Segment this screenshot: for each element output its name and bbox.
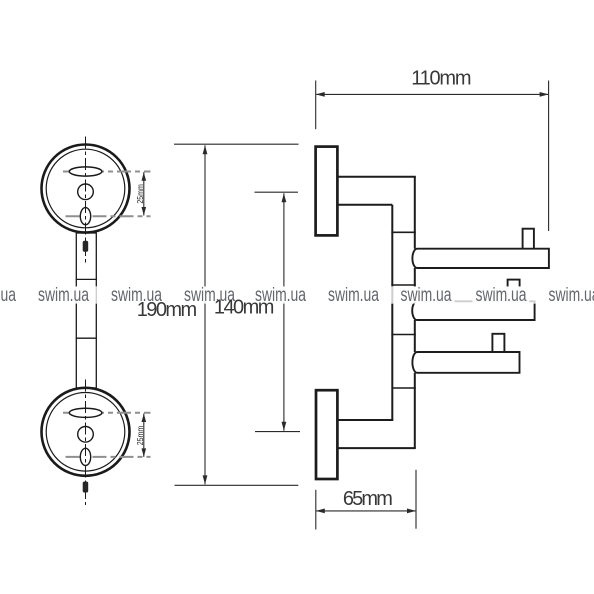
hook arm 1 peg [523,229,534,249]
vertical centerline [85,380,87,506]
140mm dimension [255,192,301,431]
outer ring [42,388,130,476]
25mm dimension (bottom rosette) [135,414,146,457]
svg-text:25mm: 25mm [135,426,145,446]
horizontal centerline through slot [63,412,151,414]
svg-text:swim.ua: swim.ua [401,285,452,306]
dimension line [204,145,206,484]
watermark texts [0,285,594,306]
vertical centerline [85,137,87,263]
hook arm 3 [412,352,519,373]
horizontal centerline through slot [63,171,151,173]
watermark band [0,286,594,303]
lower support arm outline [338,420,416,448]
svg-text:110mm: 110mm [411,67,471,89]
post swivel joint lines [391,232,415,388]
post right edge (segments between arms) [414,177,416,249]
screw hole [78,427,94,443]
190mm dimension [174,144,299,485]
outer ring [42,145,130,233]
svg-text:swim.ua: swim.ua [549,285,594,306]
lower oval hole [80,448,90,465]
set pin bottom [83,482,89,493]
svg-text:190mm: 190mm [137,299,198,321]
hook arm 2 peg [508,280,520,302]
keyhole slot [69,408,102,417]
svg-text:swim.ua: swim.ua [0,285,16,306]
keyhole slot [69,167,102,176]
110mm dimension [316,67,549,231]
bar joint line upper [76,278,97,280]
bottom wall plate (side view) [316,390,337,479]
lower oval hole [80,208,90,225]
horizontal centerline through oval [66,215,151,217]
top wall plate (side view) [316,147,338,236]
svg-text:140mm: 140mm [214,297,275,319]
bottom extension line [255,431,300,433]
svg-text:swim.ua: swim.ua [328,285,379,306]
post left edge [391,205,393,420]
dimension line [283,193,285,431]
top extension line [255,191,299,193]
bottom wall mount rosette (front view) [42,380,151,506]
bottom extension line [175,484,299,486]
svg-text:65mm: 65mm [343,488,393,510]
svg-text:swim.ua: swim.ua [38,285,89,306]
bar joint line lower [76,337,97,339]
set pin top [83,241,89,252]
hook arm 3 peg [492,334,504,353]
hook arm 1 [412,249,549,268]
upper support arm outline [338,177,416,448]
inner ring [46,149,125,228]
screw hole [78,184,94,200]
svg-text:25mm: 25mm [135,184,145,204]
65mm dimension [316,470,416,530]
25mm dimension (top rosette) [135,172,146,215]
svg-text:swim.ua: swim.ua [476,285,527,306]
top wall mount rosette (front view) [42,137,151,263]
hook arm 2 [412,301,534,320]
horizontal centerline through oval [66,456,151,458]
watermark text backplates [0,287,594,303]
top extension line [174,143,299,145]
inner ring [46,393,125,472]
connecting bar between mounts (front view) [76,233,97,388]
